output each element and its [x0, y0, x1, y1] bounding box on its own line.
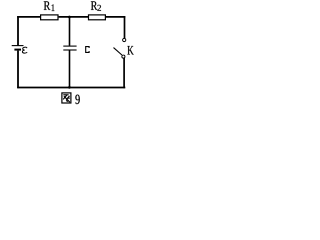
capacitor C top plate: [63, 45, 76, 47]
resistor R2: [89, 15, 106, 20]
switch K blade: [114, 48, 122, 55]
wire top-left segment: [17, 16, 40, 18]
figure label glyph tu (inner strokes): [63, 95, 70, 102]
resistor R1: [41, 15, 58, 20]
switch K bottom terminal: [122, 55, 125, 58]
battery short plate: [14, 49, 21, 51]
wire top-middle segment: [59, 16, 89, 18]
node junction bottom (capacitor branch): [68, 86, 71, 89]
battery long plate: [12, 45, 24, 47]
label K: [127, 46, 133, 55]
figure label digit 9: [75, 95, 79, 104]
node junction top (capacitor tap): [68, 16, 71, 19]
label R2: [91, 1, 97, 10]
wire capacitor branch lower: [69, 51, 71, 88]
figure label glyph tu (outer box): [62, 93, 71, 103]
label C: [86, 47, 89, 53]
capacitor C bottom plate: [63, 49, 76, 51]
label R1: [44, 1, 50, 10]
wire right upper: [124, 16, 126, 38]
switch K top terminal: [123, 38, 126, 41]
wire bottom: [17, 87, 125, 89]
wire top-right segment: [106, 16, 126, 18]
wire left upper: [17, 16, 19, 45]
label epsilon (emf): [22, 47, 27, 53]
wire right lower: [123, 58, 125, 88]
wire capacitor branch upper: [69, 17, 71, 46]
wire left lower: [17, 51, 19, 89]
